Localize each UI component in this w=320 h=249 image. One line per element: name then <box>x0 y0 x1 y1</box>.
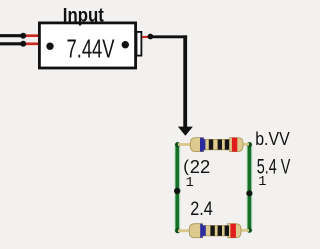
voltmeter U1 box <box>39 23 135 68</box>
band black 2 R1 <box>218 139 222 149</box>
terminal dot left inside box <box>46 43 53 50</box>
wire black vertical down <box>183 35 187 128</box>
wire black horizontal to corner <box>150 35 187 38</box>
band blue R2 <box>200 223 206 238</box>
svg-text:1: 1 <box>186 176 194 191</box>
terminal dot right inside box <box>122 41 129 48</box>
band red R2 <box>230 223 236 238</box>
resistor R2 bottom <box>178 223 249 238</box>
svg-text:(: ( <box>183 157 189 176</box>
wire black lead bottom-left <box>0 42 22 45</box>
lead right R2 <box>240 229 249 232</box>
corner dot bottom-left <box>175 228 180 233</box>
node junction right of box <box>148 34 154 40</box>
band black 1 R1 <box>209 139 213 149</box>
svg-text:22: 22 <box>190 156 210 177</box>
svg-text:7.44V: 7.44V <box>67 33 115 63</box>
band black 3 R1 <box>225 139 229 149</box>
corner dot bottom-right <box>247 228 252 233</box>
node bottom-left lead tip <box>20 41 26 47</box>
band black 3 R2 <box>225 226 229 236</box>
svg-text:2.4: 2.4 <box>190 199 213 220</box>
wire red segment right of bracket <box>142 36 149 38</box>
wire green right halo <box>246 144 252 231</box>
lead left R2 <box>178 229 190 232</box>
wire green right side <box>247 144 251 231</box>
wire black lead top-left <box>0 34 22 37</box>
body R1 <box>190 138 243 152</box>
node top-left lead tip <box>20 33 26 39</box>
resistor R1 top <box>178 137 249 152</box>
corner dot top-left <box>175 142 180 147</box>
node junction left wire <box>174 188 180 194</box>
connector bracket on right of box <box>137 32 142 56</box>
wire red segment top-left <box>24 34 39 37</box>
node junction right wire <box>246 190 252 196</box>
band black 1 R2 <box>210 226 214 236</box>
wire red segment bottom-left <box>24 42 39 45</box>
corner dot top-right <box>247 142 252 147</box>
wire green left halo <box>174 144 180 232</box>
band blue R1 <box>200 137 205 152</box>
wire green left side <box>175 144 179 232</box>
body R2 <box>189 224 241 238</box>
arrowhead pointing down <box>178 127 193 136</box>
lead right R1 <box>242 143 249 146</box>
lead left R1 <box>178 143 191 146</box>
svg-text:1: 1 <box>258 175 266 190</box>
band black 2 R2 <box>218 226 222 236</box>
band red R1 <box>232 137 237 152</box>
svg-text:Input: Input <box>63 5 105 26</box>
svg-text:b.VV: b.VV <box>255 128 290 149</box>
